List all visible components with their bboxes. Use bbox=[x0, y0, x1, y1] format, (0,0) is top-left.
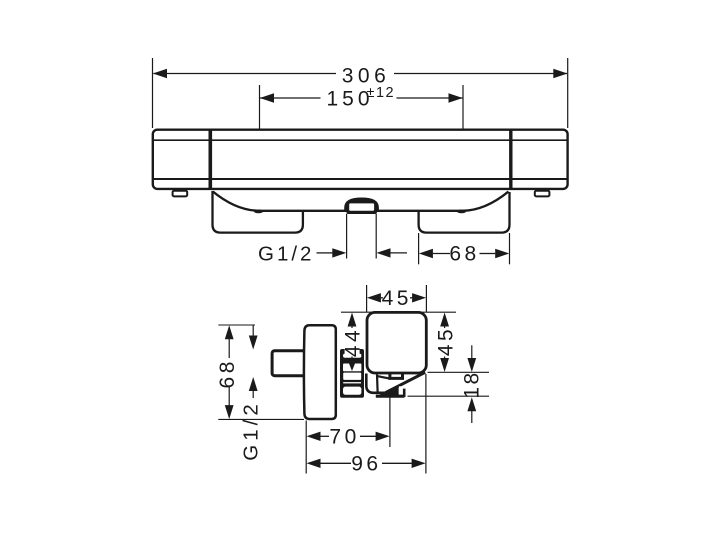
svg-text:G1/2: G1/2 bbox=[258, 243, 314, 266]
svg-text:±12: ±12 bbox=[367, 85, 396, 101]
svg-text:18: 18 bbox=[461, 370, 484, 398]
svg-text:45: 45 bbox=[382, 287, 412, 310]
svg-text:70: 70 bbox=[329, 425, 359, 448]
svg-text:68: 68 bbox=[216, 358, 239, 388]
svg-text:68: 68 bbox=[449, 243, 479, 266]
svg-text:44: 44 bbox=[342, 327, 365, 357]
svg-text:G1/2: G1/2 bbox=[240, 400, 263, 460]
svg-text:45: 45 bbox=[435, 326, 458, 356]
svg-text:96: 96 bbox=[351, 452, 381, 475]
